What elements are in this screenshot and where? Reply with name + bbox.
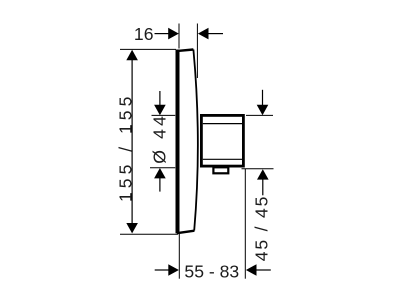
dim 16: right arrow [198,28,209,40]
escutcheon plate front convex edge [193,50,197,231]
dim 155/155: top extension line [120,48,176,50]
dim 16: right tail line [208,33,223,35]
dim 45/45: down arrow [257,105,269,115]
dim 55-83: left arrow [168,264,179,276]
dim 45/45: bottom extension line [242,168,274,170]
dim 55-83: right arrow [246,264,257,276]
dim ø44: up arrow [154,168,166,178]
escutcheon plate bottom edge [177,231,195,234]
dim 45/45: up arrow [257,169,269,179]
dim ø44: down arrow [154,105,166,115]
dim 55-83: left tail line [155,269,169,271]
dim 155/155: down arrow [126,223,138,233]
dim 45/45: upper line [262,90,264,105]
dim 16: left tail line [155,33,170,35]
safety stop tab under handle [213,167,228,173]
svg-text:55 - 83: 55 - 83 [184,261,239,281]
dim 155/155: dimension line [131,60,133,224]
dim ø44: bottom tick extension [150,167,175,169]
svg-text:16: 16 [134,24,154,44]
dim 55-83: right extension line [244,169,246,279]
dim 45/45: lower line [262,179,264,195]
escutcheon plate back line (wall side) [176,50,180,234]
dim ø44: top tick extension [152,114,176,116]
dim 16: left extension line [178,24,180,49]
dim 55-83: right tail line [256,269,271,271]
svg-text:45 / 45: 45 / 45 [251,195,271,261]
svg-text:155 / 155: 155 / 155 [116,93,136,202]
escutcheon plate top edge [176,50,193,52]
handle inner chamfer line top [203,123,242,125]
dim 155/155: bottom extension line [120,233,178,235]
dim 155/155: up arrow [126,50,138,60]
dim ø44: lower line [159,178,161,192]
dim ø44: upper line [159,91,161,105]
handle outer body [201,115,243,166]
svg-text:Ø 44: Ø 44 [149,113,169,164]
dim 16: left arrow [168,28,179,40]
handle inner chamfer line bottom [203,158,242,160]
dim 16: right extension line [196,24,198,79]
dim 45/45: top extension line [246,114,273,116]
dim 55-83: left extension line [178,234,180,279]
